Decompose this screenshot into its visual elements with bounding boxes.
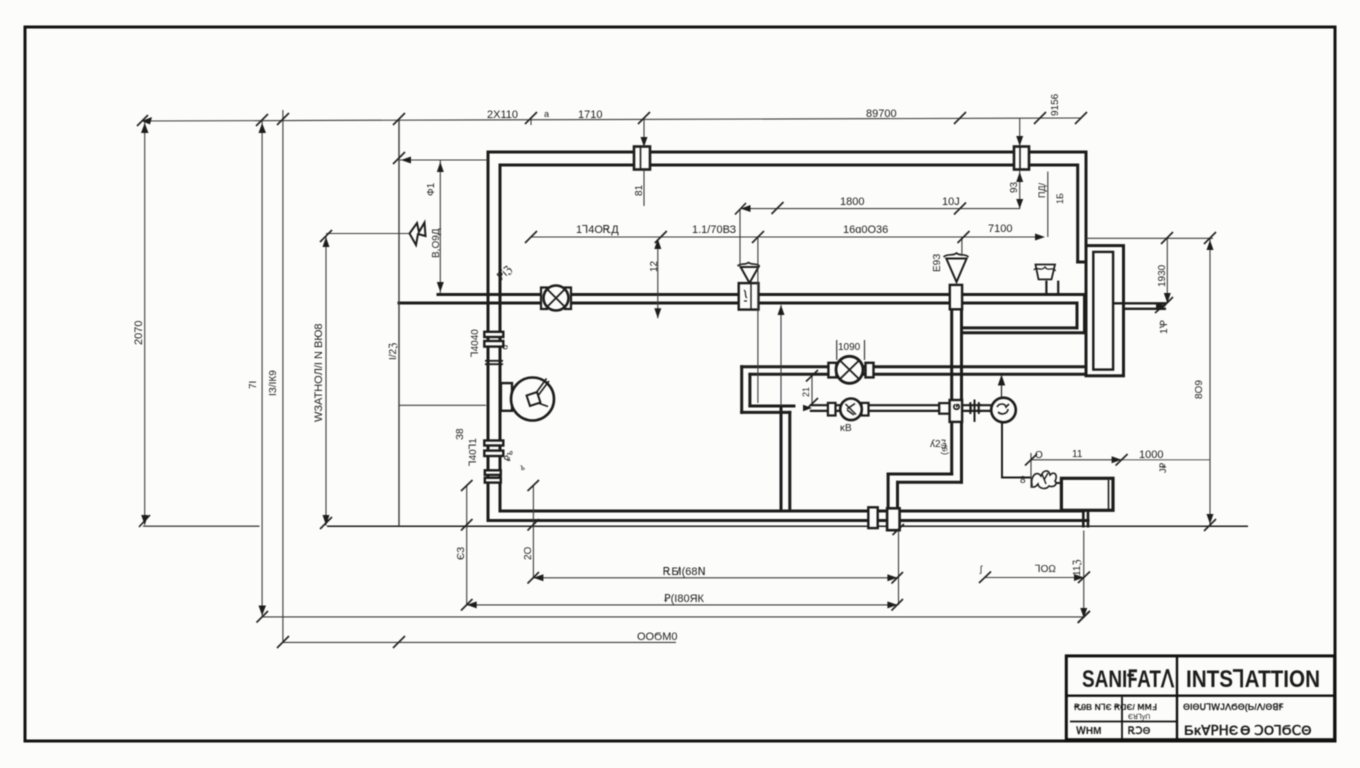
svg-text:7І: 7І [248, 381, 259, 389]
dim ext x644 above pipe [643, 118, 645, 147]
dim connector y236 [326, 233, 409, 235]
svg-text:1090: 1090 [838, 342, 861, 353]
dim ext x657 [657, 239, 659, 318]
svg-text:8: 8 [1020, 475, 1026, 486]
svg-text:ПД/: ПД/ [1037, 182, 1047, 198]
arrow y208 left end [741, 205, 751, 212]
arrow run2 start [803, 405, 812, 411]
dim line y237 (long) [531, 236, 1043, 238]
dim vertical x326 (WEATHO) [325, 236, 327, 526]
svg-text:ᴋВ: ᴋВ [840, 423, 852, 434]
dim ext x1047 [1047, 172, 1049, 237]
wire column stub bottom [1124, 308, 1167, 310]
dim ext x644 below pipe [643, 170, 645, 206]
svg-text:89700: 89700 [866, 108, 897, 120]
bowtie symbol left of pipes [410, 223, 426, 246]
coupling on run2 at riser [939, 400, 962, 422]
svg-text:81: 81 [634, 184, 645, 196]
svg-text:a: a [544, 109, 549, 119]
tick x326 ends [320, 230, 332, 242]
dim ext x740 down to funnel [739, 209, 741, 268]
dim 21 vertical x812 [811, 376, 813, 404]
svg-text:2О: 2О [523, 546, 534, 560]
wire right drop step [1078, 261, 1086, 264]
dim line D y642 [283, 641, 676, 643]
tick y208 [735, 203, 746, 215]
dim ext x1083 below tank [1083, 531, 1085, 619]
pipe column inner [1093, 252, 1113, 370]
svg-text:ꞀОΩ: ꞀОΩ [1035, 564, 1056, 575]
svg-text:ΘΙΘꓴꞀꓪЈꓥϬΘ(Ƅ/ꓥ/ΘꓭꞘ: ΘΙΘꓴꞀꓪЈꓥϬΘ(Ƅ/ꓥ/ΘꓭꞘ [1183, 702, 1284, 712]
svg-text:І/2ℨ: І/2ℨ [388, 343, 399, 360]
cup valve V4 on mid pipe at x1046 [1034, 265, 1058, 294]
wire branch back to riser bottom [962, 331, 1085, 334]
svg-text:1Б: 1Б [1055, 193, 1065, 204]
arrow x144 top [141, 123, 149, 133]
wire top pipe inner [500, 164, 1077, 167]
svg-text:1.1/70ВЗ: 1.1/70ВЗ [692, 224, 737, 236]
arrow stub end [1156, 303, 1166, 310]
svg-text:ЄꓤꞀуꓵ: ЄꓤꞀуꓵ [1128, 713, 1150, 721]
pump P2 on run2 [828, 399, 869, 421]
svg-text:INTSꞀATTION: INTSꞀATTION [1186, 666, 1320, 693]
svg-text:8О9: 8О9 [1194, 380, 1205, 399]
funnel/valve V3 on mid pipe at x956 [944, 253, 969, 309]
svg-text:1710: 1710 [578, 109, 602, 121]
dim vertical x440 [439, 160, 441, 293]
tank T1 [1061, 478, 1113, 510]
stem valve between coupling and pump3 [969, 400, 982, 422]
wire left riser inner [499, 165, 502, 511]
right tall column (double walled) [1086, 246, 1166, 376]
wire run1 left elbow outer [740, 367, 743, 413]
dim bracket 1090 ticks [837, 340, 865, 360]
dim ext x757 [757, 237, 759, 403]
dim line y208 (1800) [741, 208, 1020, 210]
wire pump run1 top [742, 365, 1086, 368]
wire center riser right [960, 309, 963, 482]
title block outer [1066, 656, 1334, 740]
svg-text:7100: 7100 [988, 223, 1012, 235]
title block left cell h-line [1070, 721, 1177, 723]
svg-text:1930: 1930 [1157, 264, 1168, 287]
arrow x1019 down at coupling [1016, 136, 1023, 146]
wire branch back to riser top [962, 326, 1078, 329]
dim ext x1031 [1030, 453, 1032, 488]
svg-text:Ꞁ40Ꞁ1: Ꞁ40Ꞁ1 [468, 438, 479, 466]
svg-text:1Ꞁ4ОᎡД: 1Ꞁ4ОᎡД [576, 224, 619, 236]
svg-text:G: G [953, 404, 962, 410]
dim vertical x1210 (508) [1209, 238, 1211, 525]
svg-text:ᎡƂ̸І(68ꓠ: ᎡƂ̸І(68ꓠ [663, 566, 706, 578]
wire center riser left [950, 309, 953, 474]
wire mid pipe top [438, 293, 1086, 296]
tick dim C right end [1078, 611, 1090, 623]
dim ext x898 below coupling [898, 531, 900, 606]
dim ext x961 [961, 237, 963, 256]
valve scribble at tank inlet [1032, 471, 1057, 488]
dim line y459 (O-11-1000) [1031, 459, 1122, 461]
pump P1 (X circle) on run1 [828, 356, 873, 383]
arrow dim A ends [533, 574, 543, 581]
svg-text:9156: 9156 [1050, 93, 1061, 116]
svg-text:З8: З8 [455, 428, 466, 440]
wire mid pipe bottom [399, 302, 1077, 305]
tick y237 line [525, 231, 537, 243]
wire riser jog drop right [896, 482, 899, 509]
tick dim C left end [257, 611, 269, 623]
svg-text:10Ј: 10Ј [942, 196, 960, 208]
svg-text:ІЗ/ІК9: ІЗ/ІК9 [268, 370, 279, 396]
gauge G1 on left riser [501, 378, 554, 421]
svg-text:ƂᴋꓯꓑꓧЄ: ƂᴋꓯꓑꓧЄ [1184, 723, 1239, 738]
svg-text:12: 12 [649, 260, 660, 272]
dim left vertical x262 [261, 121, 263, 616]
svg-text:О: О [1035, 450, 1043, 461]
flange pair FL2 on left riser (lower) [484, 441, 503, 483]
tick x1083 bottom [1078, 611, 1090, 623]
wire mid-right elbow down outer [1083, 295, 1086, 333]
wire bottom pipe bottom [488, 519, 1088, 522]
arrow x1019 at 1800 line [1016, 199, 1023, 209]
wire riser jog drop left [887, 474, 890, 509]
wire run2 stub to valve [962, 404, 991, 406]
tank bottom right [143, 478, 1248, 527]
ticks 1930 bottom / stub [1161, 297, 1173, 309]
svg-text:Ф1: Ф1 [426, 182, 437, 196]
svg-text:WЗАТНОЛ/І N ВЮ8: WЗАТНОЛ/І N ВЮ8 [313, 323, 325, 422]
funnel/valve V2 on mid pipe at x748 [738, 263, 760, 310]
svg-text:16ɑ0О36: 16ɑ0О36 [843, 224, 888, 236]
svg-text:Ꝑ(І80ЯК: Ꝑ(І80ЯК [664, 593, 705, 605]
dim ext x466 [466, 486, 468, 606]
arrow x262 top [259, 123, 267, 133]
wire pump3 drop [1002, 423, 1031, 478]
svg-text:(ɘ/: (ɘ/ [939, 444, 949, 455]
arrow x326 bottom [323, 515, 330, 525]
ticks dim B ends [461, 599, 473, 611]
pump P3 circle [991, 398, 1016, 423]
dim left vertical x283 [282, 110, 284, 641]
svg-text:1800: 1800 [840, 196, 864, 208]
wire riser jog top [888, 473, 952, 476]
svg-text:ꓪНМ: ꓪНМ [1076, 726, 1101, 737]
ticks dim J-100 [979, 572, 991, 584]
wire run1 left elbow inner [748, 374, 751, 406]
svg-text:ꞦᎯВ ꓠꞀЄ ꞦⱭЄ/ ꓟꓟꓞ: ꞦᎯВ ꓠꞀЄ ꞦⱭЄ/ ꓟꓟꓞ [1073, 702, 1157, 712]
tick left bottom pipe [139, 515, 150, 527]
dim ext x531 top tick stub [530, 119, 532, 126]
tick x898 on dims [893, 524, 905, 535]
coupling pair on bottom pipe [868, 507, 899, 530]
tick marks (45deg slashes) [137, 112, 1216, 648]
arrow y160 left end [401, 157, 411, 164]
valve V1 (X-circle) on mid pipe [541, 286, 571, 311]
wire run1 jog bottom [742, 411, 790, 414]
arrow x1167 bottom [1164, 293, 1171, 303]
svg-text:2070: 2070 [133, 321, 145, 345]
dim ext x533 [532, 486, 534, 579]
wire left riser outer [487, 152, 490, 521]
svg-text:21: 21 [801, 387, 811, 397]
wire run1 drop left [780, 406, 783, 509]
flange pair FL1 on left riser (upper) [484, 332, 503, 364]
dim top main line [142, 118, 1081, 121]
pipe column outer [1086, 246, 1124, 376]
arrow dim O right end [1112, 456, 1122, 463]
ticks dim A ends [528, 572, 540, 584]
coupling F2 on top pipe [1014, 147, 1029, 170]
arrow x262 bottom [259, 606, 267, 616]
arrow dim J-100 right [1074, 574, 1084, 581]
wire pump run2 bottom [811, 410, 951, 412]
wire run1 drop right [788, 412, 791, 509]
arrow dim B ends [467, 601, 477, 608]
wire bottom line extension right [143, 525, 260, 527]
arrow x144 bottom [141, 515, 148, 525]
svg-text:ЄЗ: ЄЗ [456, 547, 467, 560]
dim short y577 right (J-100) [985, 577, 1084, 579]
funnel [741, 267, 759, 283]
wire bottom pipe top [500, 510, 1083, 513]
wire pump run1 bottom [750, 373, 1086, 376]
dim line A y577 [533, 577, 897, 579]
svg-text:2X110: 2X110 [487, 109, 518, 121]
wire column stub top [1113, 302, 1166, 304]
dim vertical x1167 (1930) [1166, 238, 1168, 303]
wire tank drain stub [1082, 510, 1085, 527]
dim line y160 to pipe [399, 159, 488, 161]
arrow top dim left end [142, 117, 152, 125]
svg-text:Е9З: Е9З [932, 254, 943, 272]
svg-text:ᎡꓛΘ: ᎡꓛΘ [1128, 725, 1151, 737]
arrow x781 top [778, 305, 785, 315]
tick x399 y158 [393, 152, 405, 164]
svg-text:93: 93 [1009, 181, 1020, 193]
svg-text:Ј₽: Ј₽ [1158, 463, 1168, 474]
arrow x657 bottom [654, 308, 661, 318]
dim ext x781 arrow up [780, 305, 782, 406]
dim extension x399 [398, 119, 400, 526]
arrow x1019 up below [1016, 172, 1023, 182]
arrow x440 top/bottom [437, 162, 444, 172]
dim right connector y238 [1086, 237, 1213, 239]
dim ext x1019 above pipe [1019, 118, 1021, 146]
arrow x1210 bottom [1207, 514, 1214, 524]
dim line B y604 [467, 604, 898, 606]
arrow above pump3 [999, 376, 1005, 397]
tick dim D left end [277, 636, 289, 648]
arrow x1083 bottom [1080, 608, 1087, 618]
svg-text:1000: 1000 [1139, 449, 1163, 461]
title block left cell v-line [1121, 697, 1123, 740]
tick x1210 bottom [1204, 519, 1216, 531]
svg-text:11: 11 [1072, 449, 1083, 460]
svg-text:ООϬМ0: ООϬМ0 [637, 631, 678, 643]
wire top pipe outer [488, 151, 1086, 154]
title block horizontal divider [1066, 695, 1334, 697]
ticks dim O line [1025, 454, 1037, 466]
arrow x644 down at coupling [641, 137, 648, 147]
arrow x657 top [654, 239, 661, 249]
dim line C y616 [262, 616, 1084, 618]
ticks x466/x533 short dims [461, 480, 473, 491]
arrowheads [141, 117, 1214, 618]
coupling F1 on top pipe [634, 147, 650, 170]
arrow x326 top small [323, 237, 330, 247]
wire run1 jog top [750, 405, 794, 408]
wire mid-right elbow down inner [1076, 303, 1079, 328]
dim ext x1019 below pipe [1019, 170, 1021, 209]
dim left vertical x144 [144, 121, 146, 525]
svg-text:11ℨ: 11ℨ [1072, 559, 1083, 576]
pump3 drop to tank [1002, 423, 1061, 489]
svg-text:Ꞁ4040: Ꞁ4040 [470, 329, 481, 357]
svg-text:ъ: ъ [520, 463, 525, 472]
ticks dim 21 [806, 370, 818, 382]
arrow y237 right end [1035, 234, 1045, 241]
wire right drop inner [1076, 165, 1079, 262]
svg-text:SANIꞘATꓥ: SANIꞘATꓥ [1082, 666, 1174, 693]
svg-text:1Ꝕ: 1Ꝕ [1159, 319, 1170, 334]
wire pump run2 top [811, 404, 951, 406]
tick top dim ends [137, 115, 148, 126]
leader y405 to gauge [399, 404, 486, 406]
svg-text:Ɵ ꓛОꞀϬꓚΘ: Ɵ ꓛОꞀϬꓚΘ [1240, 723, 1312, 738]
svg-text:В,О9Д: В,О9Д [431, 228, 442, 258]
wire riser jog bottom [898, 481, 962, 484]
title block vertical divider [1176, 656, 1178, 740]
valve body [739, 283, 759, 310]
ticks right y238 [1161, 232, 1173, 244]
arrow x1210 top [1207, 240, 1214, 250]
wire right drop outer [1085, 152, 1088, 246]
